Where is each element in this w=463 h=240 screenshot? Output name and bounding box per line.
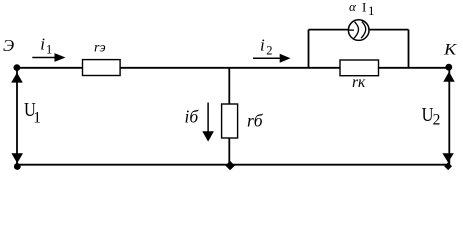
svg-text:rэ: rэ (94, 40, 106, 55)
svg-text:rб: rб (247, 110, 264, 130)
svg-text:2: 2 (266, 43, 272, 57)
svg-text:2: 2 (433, 111, 441, 128)
svg-text:1: 1 (368, 3, 375, 18)
svg-text:Э: Э (3, 36, 14, 55)
svg-text:i: i (260, 35, 265, 54)
svg-text:iб: iб (185, 107, 200, 127)
svg-text:1: 1 (33, 109, 41, 126)
svg-text:1: 1 (46, 42, 52, 56)
svg-text:i: i (40, 35, 45, 54)
svg-text:K: K (443, 42, 458, 59)
svg-text:α: α (349, 0, 357, 14)
svg-text:I: I (362, 0, 366, 15)
svg-text:rк: rк (352, 74, 366, 91)
